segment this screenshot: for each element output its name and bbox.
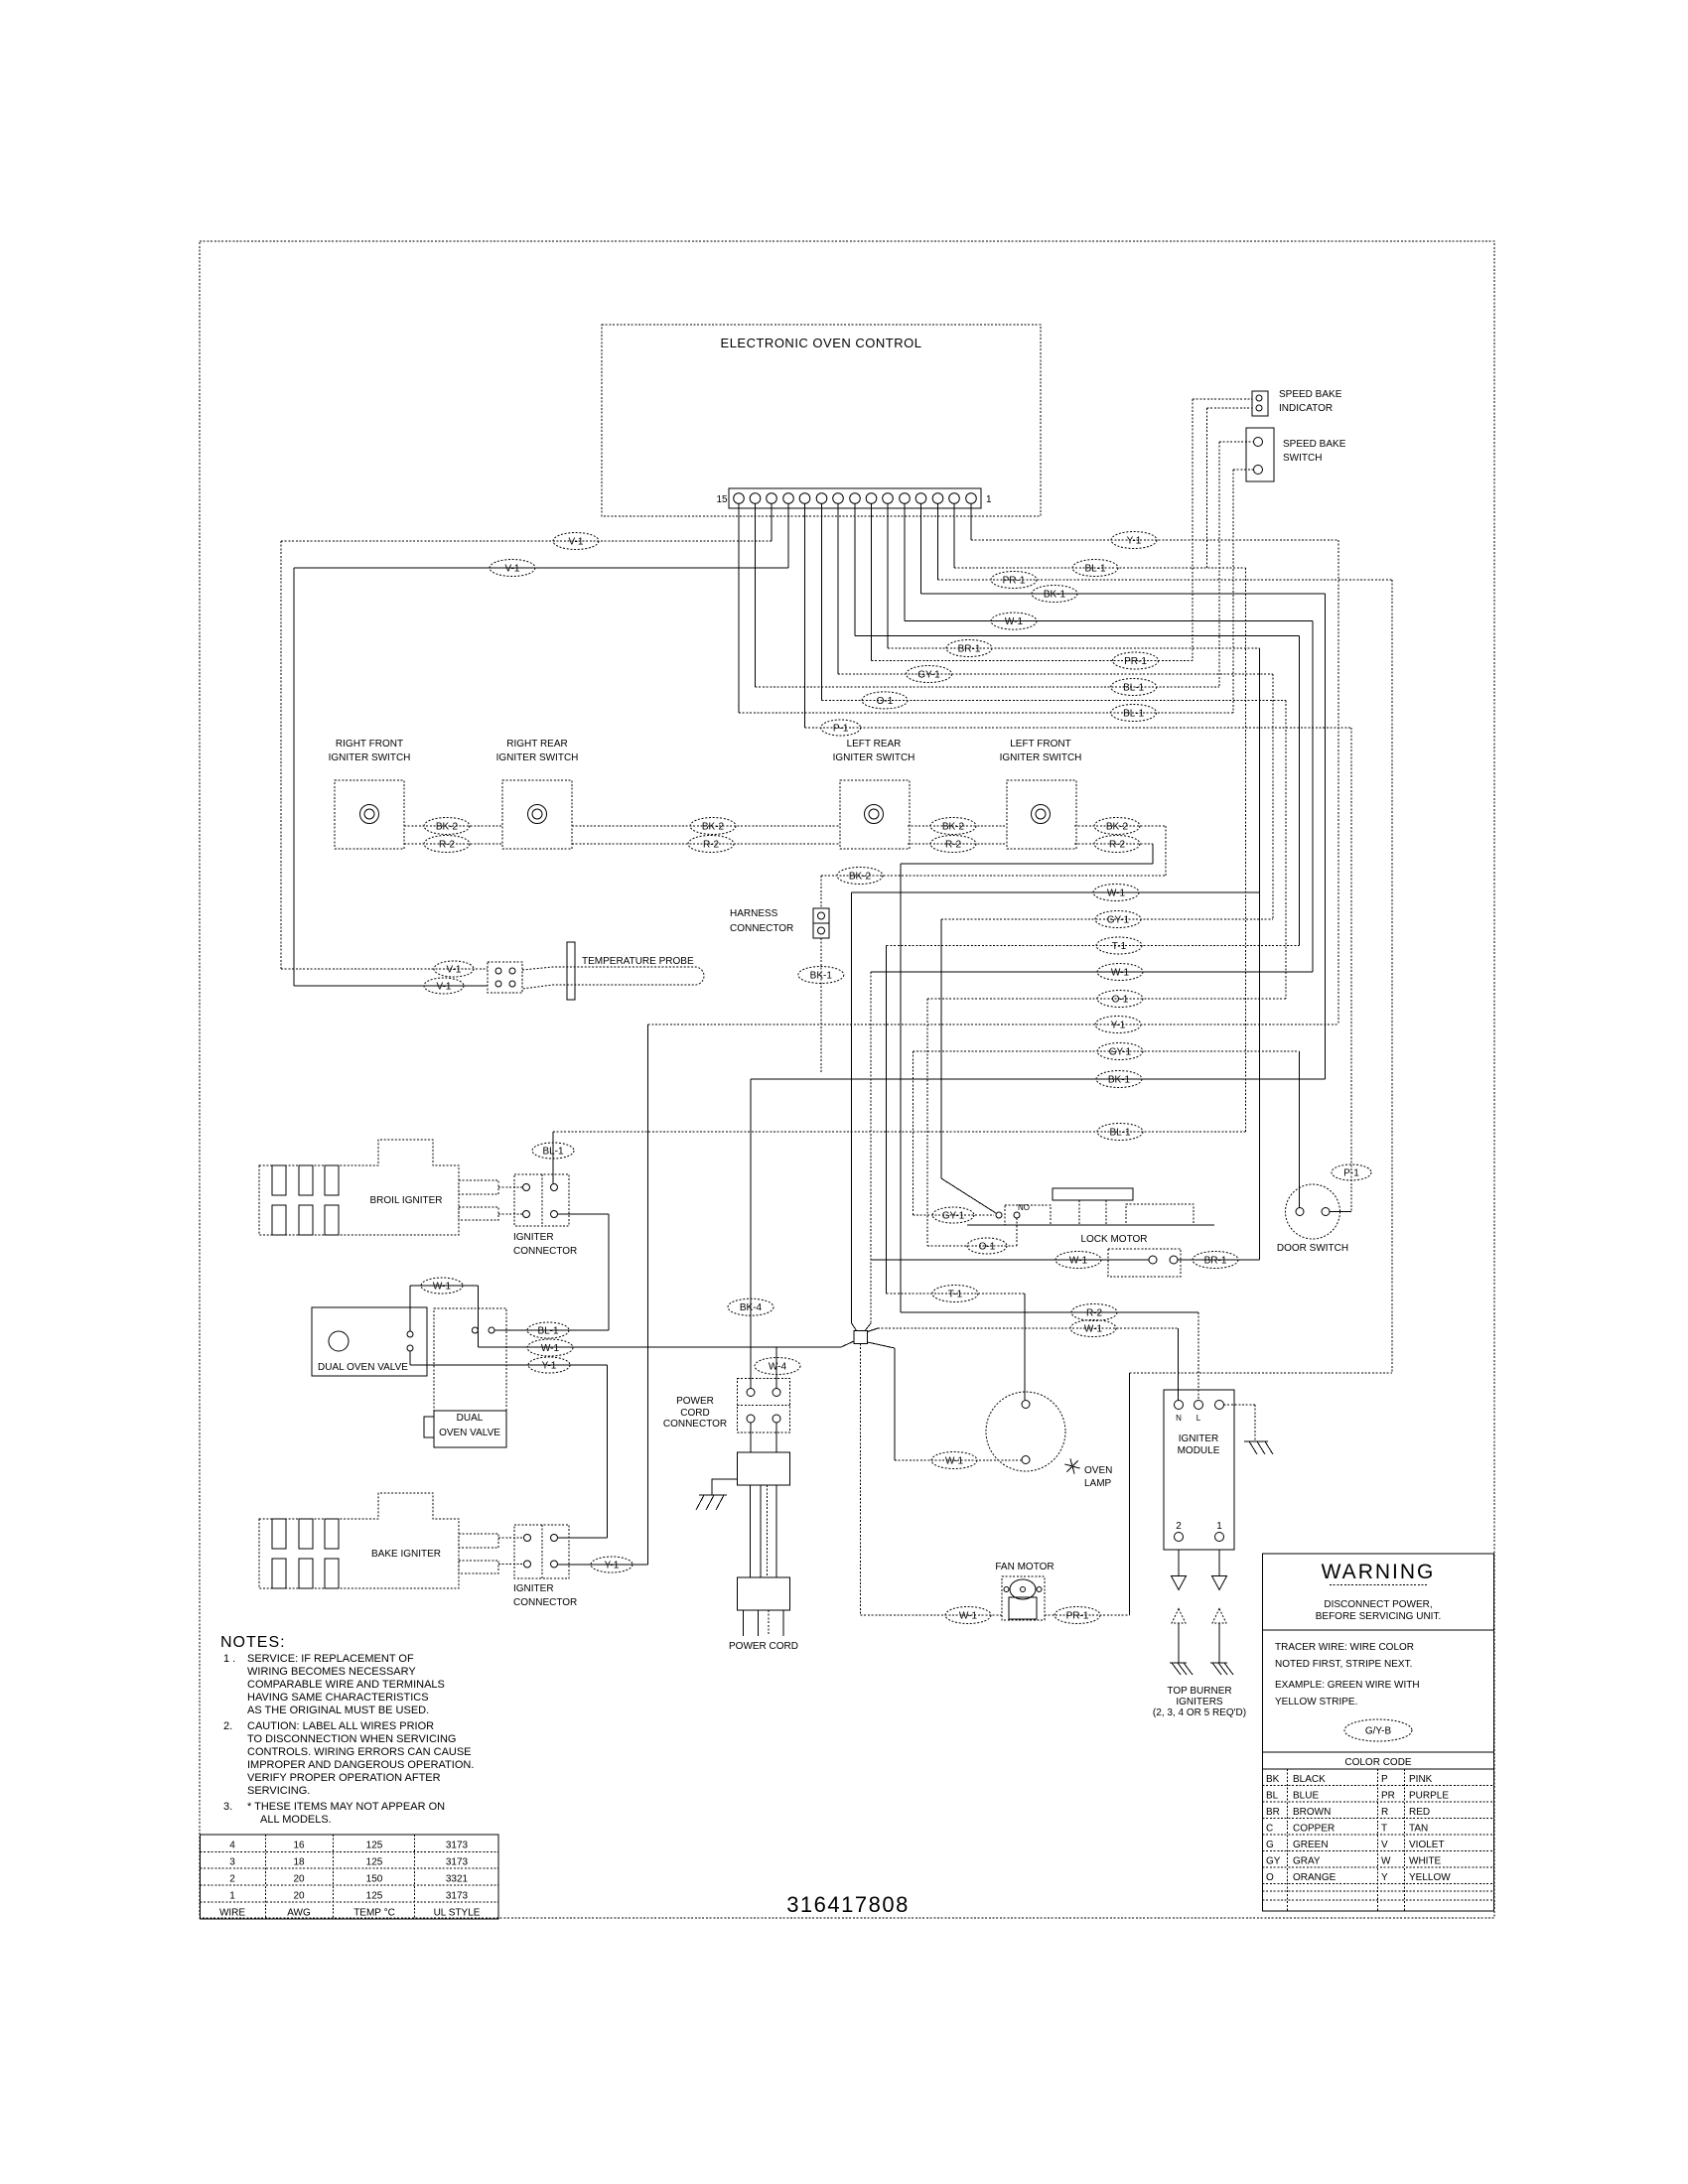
svg-text:V-1: V-1 xyxy=(504,564,519,575)
wire V-1 to probe top xyxy=(281,968,488,970)
svg-text:Y-1: Y-1 xyxy=(605,1561,620,1571)
wire GY-1 to lock switch contact xyxy=(913,1214,994,1216)
wire BL-1 valve xyxy=(494,1329,609,1331)
svg-text:CONNECTOR: CONNECTOR xyxy=(513,1597,577,1608)
ground symbol top burner xyxy=(1210,1663,1233,1675)
wire broil to connector bottom xyxy=(498,1213,522,1215)
wire from pin p15 xyxy=(738,504,740,714)
svg-text:POWER: POWER xyxy=(676,1396,714,1407)
svg-text:DUAL OVEN VALVE: DUAL OVEN VALVE xyxy=(318,1362,408,1373)
svg-text:IGNITER: IGNITER xyxy=(513,1232,554,1243)
oven lamp DS2 xyxy=(986,1392,1065,1471)
svg-text:W-1: W-1 xyxy=(959,1611,978,1622)
wire label BR-1 xyxy=(946,640,992,657)
svg-text:W-1: W-1 xyxy=(1107,888,1126,899)
svg-text:PINK: PINK xyxy=(1409,1774,1433,1785)
wire Y-1 bake connector bottom right xyxy=(558,1564,648,1566)
wire gauge table xyxy=(201,1835,499,1919)
wire from PCC pin to cord xyxy=(750,1423,752,1452)
svg-text:BK-2: BK-2 xyxy=(942,822,965,833)
svg-text:BR-1: BR-1 xyxy=(958,644,981,655)
wire W-1 to fan motor xyxy=(860,1344,862,1616)
power cord lead xyxy=(768,1610,770,1636)
svg-text:YELLOW STRIPE.: YELLOW STRIPE. xyxy=(1275,1697,1357,1707)
fan motor M2 xyxy=(1002,1576,1045,1620)
wire label W-1 xyxy=(991,613,1037,629)
wire R-2 long vertical xyxy=(900,864,902,1312)
svg-text:TEMPERATURE PROBE: TEMPERATURE PROBE xyxy=(582,956,694,967)
svg-text:VIOLET: VIOLET xyxy=(1409,1840,1445,1850)
svg-text:T-1: T-1 xyxy=(948,1290,963,1300)
wire label PR-1 xyxy=(1055,1607,1100,1624)
svg-text:125: 125 xyxy=(366,1857,383,1868)
svg-text:IGNITERS: IGNITERS xyxy=(1176,1697,1223,1707)
wire to module ground xyxy=(1224,1404,1256,1406)
wire label W-1 xyxy=(1097,964,1143,981)
wire R-2 segment xyxy=(404,843,502,845)
svg-text:COMPARABLE WIRE AND TERMINA: COMPARABLE WIRE AND TERMINALS xyxy=(247,1679,445,1691)
wire label W-1 xyxy=(1055,1252,1101,1269)
svg-text:BK-2: BK-2 xyxy=(436,822,459,833)
wire T-1 riser xyxy=(886,946,888,1295)
svg-text:PR-1: PR-1 xyxy=(1066,1611,1089,1622)
svg-text:125: 125 xyxy=(366,1841,383,1851)
wire V-1 upper horizontal xyxy=(281,540,772,542)
wire W-1 to lamp xyxy=(895,1459,1022,1461)
svg-text:18: 18 xyxy=(293,1857,305,1868)
svg-text:16: 16 xyxy=(293,1841,305,1851)
svg-text:W-1: W-1 xyxy=(541,1343,560,1354)
wire W-1 to splice 2 xyxy=(870,972,872,1323)
broil igniter E1 xyxy=(259,1140,498,1235)
wire label GY-1 xyxy=(1097,1043,1143,1060)
svg-text:W-1: W-1 xyxy=(1069,1256,1088,1267)
svg-text:2: 2 xyxy=(1176,1521,1182,1532)
svg-text:Y-1: Y-1 xyxy=(542,1361,557,1372)
svg-text:DOOR SWITCH: DOOR SWITCH xyxy=(1277,1243,1348,1254)
wire R-2 segment xyxy=(1074,843,1153,845)
oven lamp star symbol xyxy=(1064,1458,1079,1473)
svg-text:Y-1: Y-1 xyxy=(1111,1021,1126,1031)
svg-text:BL-1: BL-1 xyxy=(1084,564,1106,575)
svg-text:IGNITER: IGNITER xyxy=(513,1583,554,1594)
wire label Y-1 xyxy=(591,1557,633,1572)
wire label W-1 xyxy=(1093,885,1139,901)
svg-text:SPEED BAKE: SPEED BAKE xyxy=(1279,389,1342,400)
svg-text:VERIFY PROPER OPERATION AFT: VERIFY PROPER OPERATION AFTER xyxy=(247,1772,441,1784)
wire label V-1 xyxy=(553,533,599,550)
svg-text:FAN MOTOR: FAN MOTOR xyxy=(995,1562,1054,1572)
top burner igniter electrode xyxy=(1212,1609,1226,1664)
wire Y-1 valve horizontal xyxy=(410,1364,608,1366)
wire BK-2 segment xyxy=(572,825,840,827)
top burner igniter electrode xyxy=(1172,1609,1186,1664)
svg-text:WARNING: WARNING xyxy=(1322,1561,1436,1583)
svg-text:NOTED FIRST, STRIPE NEXT.: NOTED FIRST, STRIPE NEXT. xyxy=(1275,1659,1412,1670)
svg-text:DISCONNECT POWER,: DISCONNECT POWER, xyxy=(1324,1599,1432,1610)
svg-text:3: 3 xyxy=(229,1857,235,1868)
wire label W-1 xyxy=(945,1607,991,1624)
wire BL-1 mid xyxy=(553,1131,1246,1133)
wire T-1 mid xyxy=(887,945,1300,947)
wire BK-1 mid xyxy=(751,1078,1326,1080)
wire W-1 to lock motor xyxy=(871,1259,1149,1261)
svg-text:BK-2: BK-2 xyxy=(702,822,725,833)
speed bake switch S1 xyxy=(1246,428,1274,481)
svg-text:C: C xyxy=(1266,1824,1273,1835)
wire label W-1 xyxy=(931,1452,977,1469)
svg-text:1: 1 xyxy=(1216,1521,1222,1532)
svg-text:W-1: W-1 xyxy=(1084,1324,1103,1335)
wire BR-1 from pin6 xyxy=(888,647,1260,649)
wire Y-1 from valve xyxy=(409,1351,411,1365)
wire label R-2 xyxy=(424,836,470,853)
svg-text:IGNITER SWITCH: IGNITER SWITCH xyxy=(329,752,411,763)
wire label W-1 xyxy=(421,1278,463,1294)
svg-text:W-1: W-1 xyxy=(1005,616,1024,627)
svg-text:YELLOW: YELLOW xyxy=(1409,1872,1451,1883)
svg-text:GY-1: GY-1 xyxy=(917,670,940,681)
wire PR-1 from fan xyxy=(1045,1614,1130,1616)
wire label R-2 xyxy=(930,836,976,853)
wire label P-1 xyxy=(821,720,861,736)
wire from pin p5 xyxy=(904,504,906,621)
svg-text:GY-1: GY-1 xyxy=(1109,1047,1132,1058)
svg-text:V: V xyxy=(1381,1840,1388,1850)
wire Y-1 from pin1 xyxy=(971,539,1338,541)
wire GY-1 from pin9 xyxy=(838,673,1273,675)
wire BK-2 into harness connector xyxy=(820,876,822,908)
svg-text:20: 20 xyxy=(293,1874,305,1885)
svg-text:4: 4 xyxy=(229,1841,235,1851)
wire R-2 segment xyxy=(908,843,1007,845)
svg-text:3.: 3. xyxy=(223,1801,232,1813)
dual oven valve 2 L2 xyxy=(424,1308,506,1447)
wire bake to connector top xyxy=(498,1537,523,1539)
svg-text:BLUE: BLUE xyxy=(1293,1791,1319,1802)
svg-text:2: 2 xyxy=(229,1874,235,1885)
wire BK-2 segment xyxy=(1074,825,1166,827)
wire O-1 lower xyxy=(927,1245,1017,1247)
wire label BL-1 xyxy=(1111,679,1157,696)
svg-text:TEMP °C: TEMP °C xyxy=(353,1908,395,1919)
wire label V-1 xyxy=(490,560,535,577)
power cord body xyxy=(737,1452,789,1485)
wire label T-1 xyxy=(1096,937,1142,954)
svg-text:125: 125 xyxy=(366,1891,383,1902)
svg-text:ELECTRONIC OVEN CONTROL: ELECTRONIC OVEN CONTROL xyxy=(721,336,922,350)
svg-text:SERVICING.: SERVICING. xyxy=(247,1785,310,1797)
svg-text:GY-1: GY-1 xyxy=(1107,915,1130,926)
svg-text:BK-2: BK-2 xyxy=(1106,822,1129,833)
wire from broil connector right xyxy=(558,1213,609,1215)
wire label Y-1 xyxy=(1111,532,1157,549)
page border frame xyxy=(200,241,1494,1918)
wire P-1 vertical to door switch xyxy=(1350,728,1352,1212)
svg-text:BK-4: BK-4 xyxy=(740,1302,763,1313)
wire label BL-1 xyxy=(1097,1124,1143,1141)
svg-text:O: O xyxy=(1266,1872,1274,1883)
wire R-2 segment xyxy=(572,843,840,845)
svg-text:PR-1: PR-1 xyxy=(1124,656,1147,667)
harness connector J1 xyxy=(813,908,829,938)
svg-text:V-1: V-1 xyxy=(436,982,451,993)
wire W-1 to fan xyxy=(861,1614,1003,1616)
svg-text:R-2: R-2 xyxy=(1086,1308,1103,1319)
svg-text:PR: PR xyxy=(1381,1791,1395,1802)
wire label BK-2 xyxy=(690,818,736,835)
wire BR-1 vertical xyxy=(1259,648,1261,1260)
svg-text:G/Y-B: G/Y-B xyxy=(1365,1726,1392,1737)
svg-text:COPPER: COPPER xyxy=(1293,1824,1335,1835)
lock switch NO contact xyxy=(1014,1212,1020,1218)
svg-text:BL-1: BL-1 xyxy=(1123,683,1145,694)
wire BK-2 to harness xyxy=(821,875,1166,877)
wire label P-1 door xyxy=(1332,1164,1371,1180)
ground symbol power cord xyxy=(696,1495,727,1510)
left front igniter switch xyxy=(1007,780,1076,849)
svg-text:PURPLE: PURPLE xyxy=(1409,1791,1449,1802)
wire V-1 lower horizontal xyxy=(294,567,788,569)
wire broil to connector top xyxy=(498,1186,522,1188)
svg-text:SERVICE: IF REPLACEMENT O: SERVICE: IF REPLACEMENT OF xyxy=(247,1653,414,1665)
svg-text:CAUTION: LABEL ALL WIRES: CAUTION: LABEL ALL WIRES PRIOR xyxy=(247,1720,434,1732)
wire W-1 to splice xyxy=(851,892,853,1323)
svg-text:R-2: R-2 xyxy=(703,840,720,851)
splice junction node xyxy=(841,1323,895,1348)
wire label BL-1 xyxy=(527,1322,569,1338)
wire V-1 to probe bottom xyxy=(294,985,488,987)
svg-text:CORD: CORD xyxy=(680,1408,709,1419)
svg-text:20: 20 xyxy=(293,1891,305,1902)
svg-text:POWER CORD: POWER CORD xyxy=(729,1641,798,1652)
svg-text:CONNECTOR: CONNECTOR xyxy=(513,1246,577,1257)
svg-text:GRAY: GRAY xyxy=(1293,1856,1321,1867)
svg-text:BROWN: BROWN xyxy=(1293,1807,1331,1818)
svg-text:BK-1: BK-1 xyxy=(1044,590,1066,601)
wire riser to speed bake switch bottom xyxy=(1232,470,1234,713)
wire PR-1 long vertical xyxy=(1391,580,1393,1373)
ground symbol igniter module xyxy=(1244,1441,1273,1454)
wire V-1 left vertical 2 xyxy=(293,568,295,986)
svg-text:BL-1: BL-1 xyxy=(537,1326,559,1337)
svg-text:TO DISCONNECTION WHEN SERVI: TO DISCONNECTION WHEN SERVICING xyxy=(247,1733,456,1745)
wire P-1 from pin11 xyxy=(805,727,1352,729)
svg-text:NO: NO xyxy=(1018,1203,1030,1212)
left rear igniter switch xyxy=(840,780,910,849)
wire R-2 drop xyxy=(1152,844,1154,864)
svg-text:BEFORE SERVICING UNIT.: BEFORE SERVICING UNIT. xyxy=(1316,1611,1442,1622)
wire label BR-1 xyxy=(1193,1252,1238,1269)
wire label BK-2 xyxy=(424,818,470,835)
wire BL-1 down to valve xyxy=(608,1214,610,1330)
lock motor M1 xyxy=(967,1188,1214,1225)
wire BR-1 from lock motor xyxy=(1178,1259,1260,1261)
svg-text:P-1: P-1 xyxy=(1343,1168,1359,1179)
ground symbol top burner xyxy=(1170,1663,1193,1675)
wire GY-1 mid 2 xyxy=(913,1050,1299,1052)
wire Y-1 down to bake connector xyxy=(607,1365,609,1538)
svg-text:Y: Y xyxy=(1381,1872,1388,1883)
wire from pin p11 xyxy=(804,504,806,729)
wire BK-2 drop xyxy=(1165,826,1167,876)
wire R-2 to L pin xyxy=(1197,1312,1199,1401)
wire label BK-4 xyxy=(728,1298,774,1315)
svg-text:Y-1: Y-1 xyxy=(1127,536,1142,547)
svg-text:N: N xyxy=(1176,1414,1182,1423)
wire from pin p6 xyxy=(887,504,889,649)
wire from pin p14 xyxy=(755,504,757,688)
wire W-1 mid 2 xyxy=(871,971,1313,973)
wire label BK-2 xyxy=(930,818,976,835)
power cord plug xyxy=(737,1577,789,1610)
wire label Y-1 xyxy=(1095,1017,1141,1033)
igniter connector J3 xyxy=(514,1174,569,1226)
EOC pins 15..1 xyxy=(734,493,977,504)
wire from PCC pin to cord 2 xyxy=(775,1423,777,1452)
svg-text:O-1: O-1 xyxy=(979,1242,996,1253)
svg-text:GREEN: GREEN xyxy=(1293,1840,1329,1850)
svg-text:BL-1: BL-1 xyxy=(1109,1128,1131,1139)
wire BL-1 from pin14 xyxy=(756,686,1220,688)
wire label BL-1 xyxy=(1111,705,1157,722)
svg-text:15: 15 xyxy=(716,494,728,505)
warning box xyxy=(1263,1554,1494,1752)
color code table xyxy=(1263,1752,1494,1911)
svg-text:CONNECTOR: CONNECTOR xyxy=(663,1419,727,1430)
svg-text:O-1: O-1 xyxy=(1112,995,1129,1006)
power cord lead xyxy=(782,1610,784,1636)
svg-text:BR: BR xyxy=(1266,1807,1280,1818)
svg-text:AWG: AWG xyxy=(287,1908,311,1919)
wire T-1 to oven lamp top xyxy=(1024,1294,1026,1400)
svg-text:INDICATOR: INDICATOR xyxy=(1279,403,1333,414)
wire from pin p10 xyxy=(821,504,823,701)
svg-text:T-1: T-1 xyxy=(1112,941,1127,952)
wire W-1 to igniter module N xyxy=(878,1327,1179,1329)
power cord connector J2 xyxy=(737,1379,789,1433)
wire riser to indicator 2 xyxy=(1206,408,1208,568)
wire O-1 lock riser xyxy=(926,999,928,1246)
wire T-1 lower xyxy=(887,1293,1025,1295)
svg-text:HAVING SAME CHARACTERISTICS: HAVING SAME CHARACTERISTICS xyxy=(247,1692,429,1704)
wire label BK-2 xyxy=(1094,818,1140,835)
ground wire from power cord xyxy=(712,1479,737,1495)
svg-text:V-1: V-1 xyxy=(446,965,461,976)
wire label R-2 xyxy=(1071,1304,1117,1321)
wire label GY-1 xyxy=(932,1207,974,1223)
svg-text:RIGHT FRONT: RIGHT FRONT xyxy=(336,739,403,750)
svg-text:3173: 3173 xyxy=(446,1841,469,1851)
svg-text:BK-1: BK-1 xyxy=(810,971,833,982)
svg-text:ALL MODELS.: ALL MODELS. xyxy=(260,1814,332,1826)
wire label BL-1 xyxy=(1072,560,1118,577)
svg-text:T: T xyxy=(1381,1824,1387,1835)
wire to module ground v xyxy=(1254,1405,1256,1441)
svg-text:316417808: 316417808 xyxy=(786,1892,910,1917)
lock switch contact xyxy=(996,1212,1002,1218)
svg-text:P: P xyxy=(1381,1774,1388,1785)
svg-text:BK-2: BK-2 xyxy=(849,872,872,883)
spark output arrow xyxy=(1172,1550,1187,1590)
svg-text:1: 1 xyxy=(986,494,992,505)
svg-text:W-1: W-1 xyxy=(433,1282,452,1293)
svg-text:3173: 3173 xyxy=(446,1891,469,1902)
wire from pin p12 xyxy=(787,504,789,569)
svg-text:TOP BURNER: TOP BURNER xyxy=(1167,1686,1231,1697)
svg-text:1: 1 xyxy=(229,1891,235,1902)
wire label R-2 xyxy=(688,836,734,853)
wire W-1 valve loop left xyxy=(409,1286,411,1331)
svg-text:R-2: R-2 xyxy=(1109,840,1126,851)
wire from pin p3 xyxy=(937,504,939,581)
wire label W-4 xyxy=(755,1358,800,1375)
svg-text:ORANGE: ORANGE xyxy=(1293,1872,1336,1883)
wire from pin p7 xyxy=(871,504,873,661)
wire PR-1 top link xyxy=(1130,1372,1392,1374)
wire label R-2 xyxy=(1094,836,1140,853)
svg-text:BK: BK xyxy=(1266,1774,1280,1785)
wire Y-1 vertical xyxy=(1337,540,1339,1024)
svg-text:COLOR CODE: COLOR CODE xyxy=(1344,1757,1412,1768)
svg-text:3321: 3321 xyxy=(446,1874,469,1885)
wire PR-1 from pin7 xyxy=(872,660,1194,662)
svg-text:LEFT FRONT: LEFT FRONT xyxy=(1010,739,1070,750)
svg-text:OVEN VALVE: OVEN VALVE xyxy=(439,1428,500,1438)
svg-text:RIGHT REAR: RIGHT REAR xyxy=(506,739,568,750)
wire BL-1 vertical xyxy=(1245,568,1247,1132)
speed bake indicator DS1 xyxy=(1252,391,1268,416)
right rear igniter switch xyxy=(502,780,572,849)
wire label GY-1 xyxy=(907,666,952,683)
wire label O-1 xyxy=(862,692,908,709)
wire label BK-1 xyxy=(798,967,844,984)
svg-text:IMPROPER AND DANGEROUS OPER: IMPROPER AND DANGEROUS OPERATION. xyxy=(247,1759,474,1771)
wire label T-1 xyxy=(932,1286,978,1302)
wire GY-1 vertical xyxy=(1272,674,1274,919)
wire bake to connector bottom xyxy=(498,1564,523,1566)
wire label BL-1 xyxy=(532,1143,574,1159)
svg-text:AS THE ORIGINAL MUST BE U: AS THE ORIGINAL MUST BE USED. xyxy=(247,1705,429,1716)
wire label BK-2 xyxy=(837,868,883,885)
wire label O-1 xyxy=(1097,991,1143,1008)
lock motor coil connector xyxy=(1108,1249,1181,1277)
svg-text:TAN: TAN xyxy=(1409,1824,1428,1835)
svg-text:1 .: 1 . xyxy=(223,1653,235,1665)
svg-text:P-1: P-1 xyxy=(833,724,849,735)
wire Y-1 long vertical xyxy=(647,1024,649,1565)
wire W-1 from pin5 xyxy=(905,620,1313,622)
wire W-4 vertical xyxy=(775,1347,777,1389)
wire label W-1 xyxy=(527,1339,573,1356)
wire O-1 from pin10 xyxy=(822,699,1287,701)
svg-text:2.: 2. xyxy=(223,1720,232,1732)
wire W-1 valve loop right xyxy=(477,1286,479,1347)
dual oven valve L1 xyxy=(312,1307,427,1376)
igniter connector J4 xyxy=(514,1525,569,1578)
svg-text:SPEED BAKE: SPEED BAKE xyxy=(1283,439,1346,450)
wire from pin p9 xyxy=(837,504,839,675)
svg-text:EXAMPLE: GREEN WIRE WIT: EXAMPLE: GREEN WIRE WITH xyxy=(1275,1680,1420,1691)
wire O-1 vertical xyxy=(1285,700,1287,999)
wire label PR-1 xyxy=(1113,652,1159,669)
wire GY-1 mid xyxy=(941,918,1273,920)
wire BK-1 from pin4 xyxy=(921,593,1326,595)
wire GY-1 to lock switch xyxy=(940,919,942,1178)
power cord lead xyxy=(758,1610,760,1636)
temperature probe RT1 xyxy=(488,942,704,1000)
wire BK-1 vertical xyxy=(1325,594,1327,1079)
